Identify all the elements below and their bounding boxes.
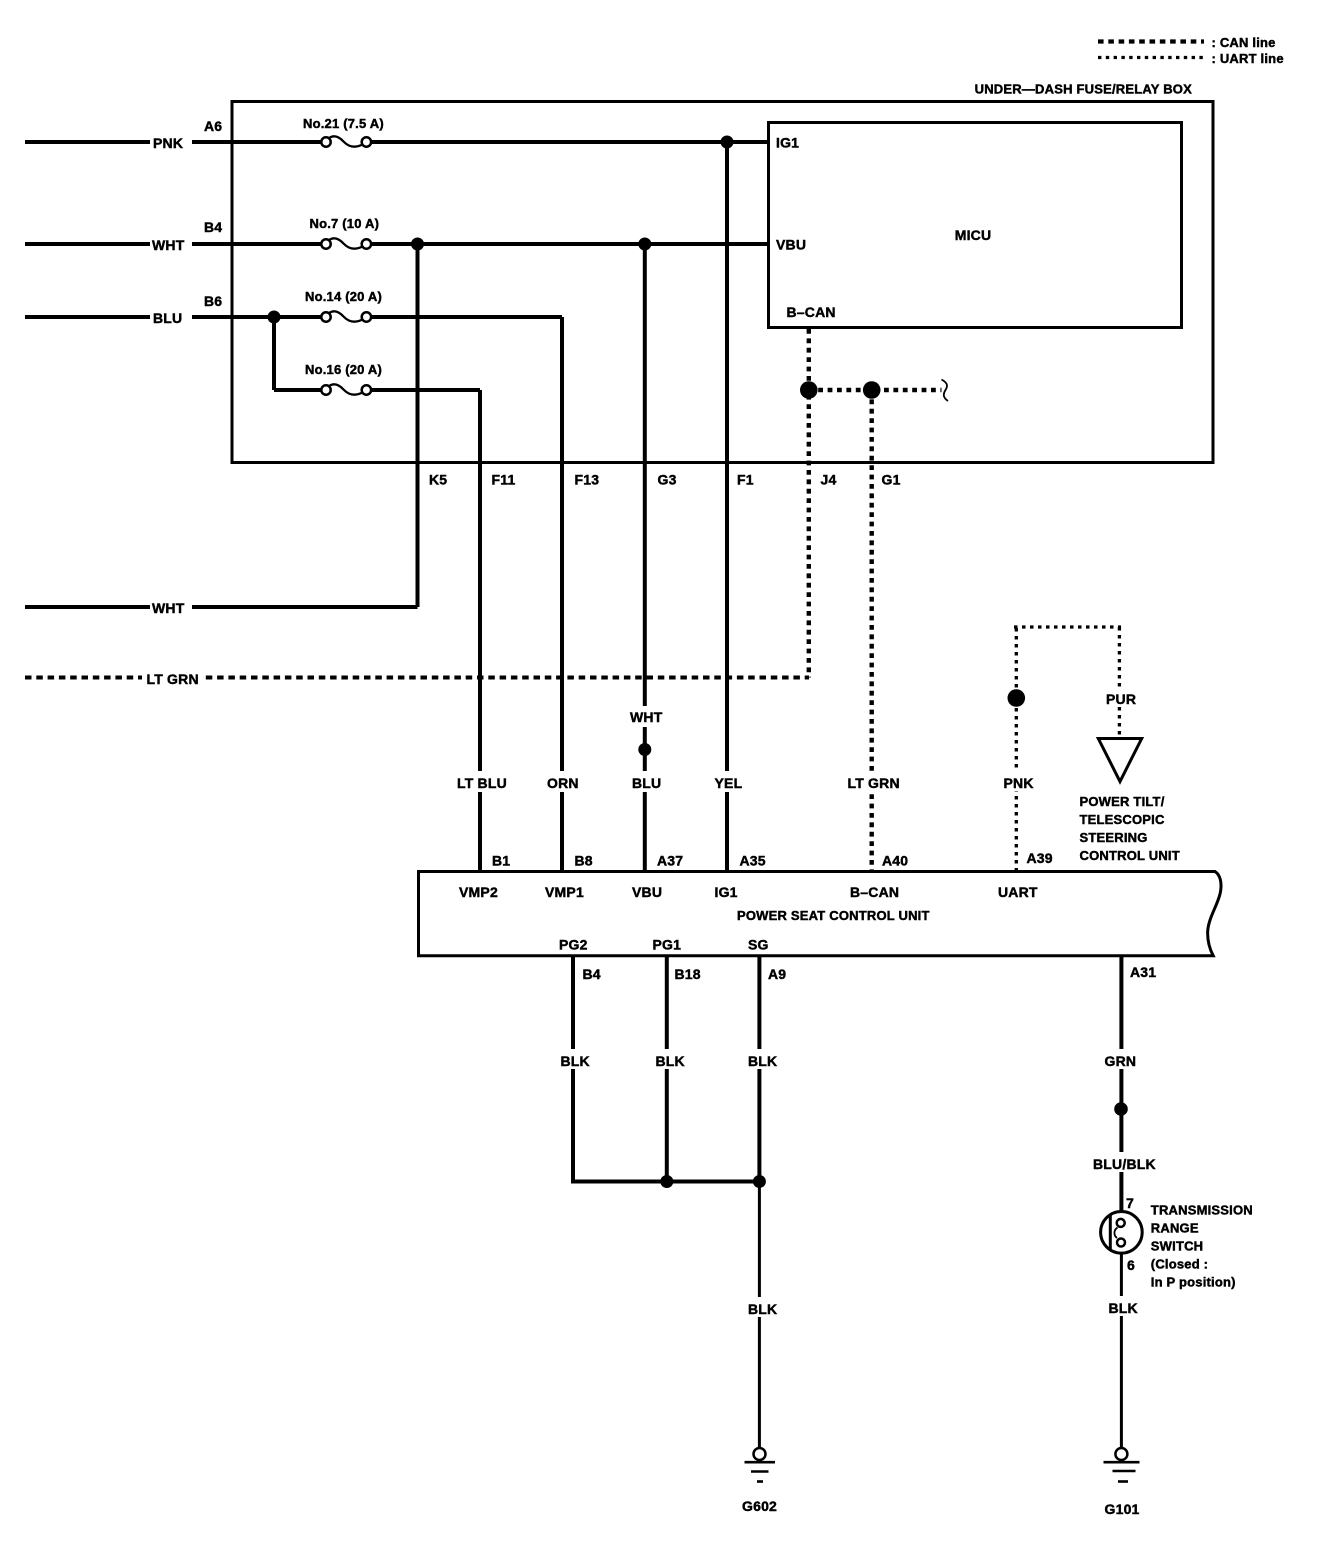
svg-text:F1: F1 — [737, 472, 754, 488]
svg-text:BLK: BLK — [748, 1301, 777, 1317]
svg-text:GRN: GRN — [1105, 1053, 1137, 1069]
svg-text:: CAN line: : CAN line — [1212, 35, 1276, 50]
svg-text:SWITCH: SWITCH — [1151, 1239, 1203, 1254]
svg-text:PNK: PNK — [153, 135, 183, 151]
svg-text:IG1: IG1 — [776, 135, 799, 151]
svg-text:: UART line: : UART line — [1212, 51, 1284, 66]
svg-text:MICU: MICU — [955, 227, 992, 243]
svg-text:B8: B8 — [575, 853, 593, 869]
svg-text:UNDER—DASH FUSE/RELAY BOX: UNDER—DASH FUSE/RELAY BOX — [975, 82, 1192, 97]
svg-text:SG: SG — [748, 937, 769, 953]
svg-text:CONTROL UNIT: CONTROL UNIT — [1080, 848, 1180, 863]
svg-text:IG1: IG1 — [715, 884, 738, 900]
svg-text:BLK: BLK — [1109, 1300, 1138, 1316]
svg-text:K5: K5 — [429, 472, 447, 488]
svg-text:F13: F13 — [575, 472, 600, 488]
svg-text:G1: G1 — [882, 472, 901, 488]
svg-text:G602: G602 — [742, 1498, 777, 1514]
svg-text:WHT: WHT — [152, 600, 185, 616]
svg-text:BLK: BLK — [561, 1053, 590, 1069]
svg-text:LT GRN: LT GRN — [848, 775, 900, 791]
svg-text:PNK: PNK — [1004, 775, 1034, 791]
svg-text:VBU: VBU — [776, 237, 806, 253]
svg-text:PG2: PG2 — [559, 937, 588, 953]
svg-text:(Closed :: (Closed : — [1151, 1257, 1208, 1272]
svg-text:B1: B1 — [492, 853, 510, 869]
svg-text:A6: A6 — [204, 118, 222, 134]
svg-text:In P position): In P position) — [1151, 1275, 1236, 1290]
svg-text:B18: B18 — [675, 966, 701, 982]
svg-text:A9: A9 — [768, 966, 786, 982]
svg-text:TELESCOPIC: TELESCOPIC — [1080, 812, 1165, 827]
svg-text:POWER SEAT CONTROL UNIT: POWER SEAT CONTROL UNIT — [737, 908, 930, 923]
svg-text:A39: A39 — [1027, 850, 1053, 866]
svg-text:STEERING: STEERING — [1080, 830, 1148, 845]
svg-text:B–CAN: B–CAN — [850, 884, 899, 900]
svg-text:No.21 (7.5 A): No.21 (7.5 A) — [303, 116, 384, 131]
svg-text:BLK: BLK — [748, 1053, 777, 1069]
svg-text:A31: A31 — [1130, 964, 1156, 980]
svg-text:BLU: BLU — [632, 775, 661, 791]
svg-text:PUR: PUR — [1106, 691, 1136, 707]
svg-text:LT BLU: LT BLU — [457, 775, 507, 791]
svg-text:B6: B6 — [204, 293, 222, 309]
svg-text:B4: B4 — [204, 219, 222, 235]
svg-text:No.7 (10 A): No.7 (10 A) — [310, 216, 380, 231]
svg-text:TRANSMISSION: TRANSMISSION — [1151, 1203, 1253, 1218]
svg-text:RANGE: RANGE — [1151, 1221, 1199, 1236]
svg-text:G3: G3 — [658, 472, 677, 488]
svg-text:VMP2: VMP2 — [459, 884, 498, 900]
svg-text:7: 7 — [1126, 1195, 1134, 1211]
svg-text:YEL: YEL — [715, 775, 743, 791]
svg-text:B–CAN: B–CAN — [787, 304, 836, 320]
svg-text:6: 6 — [1127, 1257, 1135, 1273]
svg-text:ORN: ORN — [547, 775, 579, 791]
svg-text:BLU: BLU — [153, 310, 182, 326]
svg-text:WHT: WHT — [152, 237, 185, 253]
svg-text:F11: F11 — [492, 472, 516, 488]
svg-text:LT GRN: LT GRN — [147, 671, 199, 687]
svg-text:POWER TILT/: POWER TILT/ — [1080, 794, 1165, 809]
svg-text:A40: A40 — [882, 853, 908, 869]
svg-text:A35: A35 — [740, 853, 766, 869]
svg-text:PG1: PG1 — [653, 937, 682, 953]
svg-text:J4: J4 — [821, 472, 837, 488]
svg-text:BLK: BLK — [656, 1053, 685, 1069]
svg-text:No.14 (20 A): No.14 (20 A) — [305, 289, 382, 304]
svg-text:VMP1: VMP1 — [545, 884, 584, 900]
svg-text:No.16 (20 A): No.16 (20 A) — [305, 362, 382, 377]
svg-text:VBU: VBU — [632, 884, 662, 900]
svg-text:BLU/BLK: BLU/BLK — [1093, 1156, 1156, 1172]
svg-text:A37: A37 — [657, 853, 683, 869]
svg-text:G101: G101 — [1105, 1501, 1140, 1517]
svg-text:B4: B4 — [583, 966, 601, 982]
svg-text:UART: UART — [998, 884, 1038, 900]
svg-text:WHT: WHT — [630, 709, 663, 725]
